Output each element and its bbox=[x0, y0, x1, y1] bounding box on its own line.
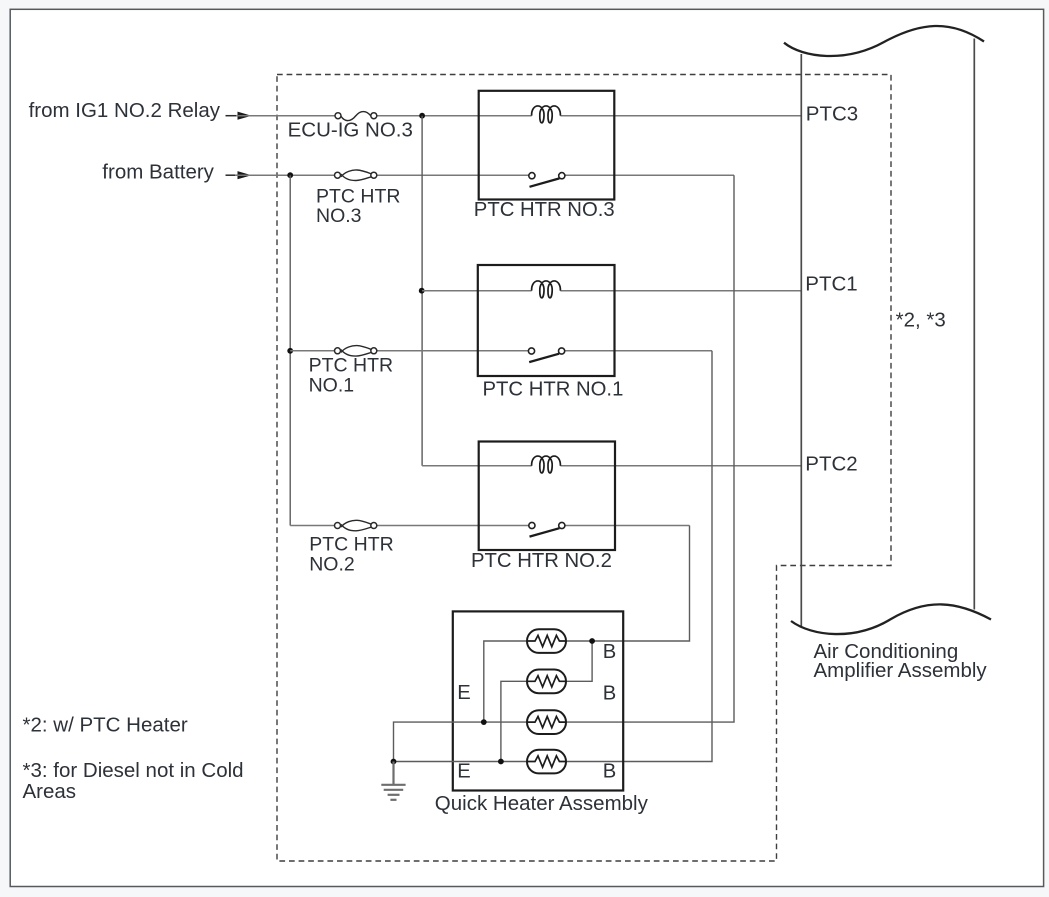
fuse PTC HTR NO.3 bbox=[335, 170, 377, 181]
relay coil U3 bbox=[532, 456, 561, 473]
wire heater4 E row bbox=[394, 761, 528, 763]
wire heater1 left branch bbox=[484, 641, 527, 722]
junction dot heater1 B node bbox=[589, 638, 595, 644]
wire PTC2 row bbox=[422, 465, 801, 467]
svg-text:NO.3: NO.3 bbox=[316, 205, 362, 227]
svg-text:Amplifier Assembly: Amplifier Assembly bbox=[814, 659, 988, 682]
svg-text:PTC1: PTC1 bbox=[805, 272, 857, 295]
ground symbol bbox=[381, 785, 405, 800]
svg-text:Areas: Areas bbox=[23, 780, 77, 803]
wire relay3 switch to heater1 B bbox=[566, 526, 690, 642]
fuse PTC HTR NO.2 bbox=[335, 520, 377, 531]
junction dot heater2/heater4 E node bbox=[498, 759, 504, 765]
svg-text:*2: w/ PTC Heater: *2: w/ PTC Heater bbox=[23, 713, 188, 736]
junction dot fuse branch relay 2 bbox=[287, 348, 293, 354]
heater element R4 bbox=[527, 750, 566, 774]
amplifier bottom wave bbox=[791, 604, 991, 634]
wire heater2 right branch bbox=[566, 641, 592, 681]
wire vertical battery branch bbox=[289, 175, 291, 525]
relay box U2 PTC HTR NO.1 bbox=[478, 265, 615, 376]
svg-text:*3: for Diesel not in Cold: *3: for Diesel not in Cold bbox=[23, 759, 244, 782]
relay switch U1 bbox=[529, 173, 565, 187]
svg-text:E: E bbox=[457, 761, 470, 783]
relay coil U1 bbox=[532, 106, 561, 123]
junction dot ground node bbox=[391, 759, 397, 765]
wire heater3 E row bbox=[394, 722, 528, 761]
fuse ECU-IG NO.3 bbox=[335, 112, 377, 121]
wire fuse NO.1 row bbox=[290, 350, 712, 352]
svg-text:ECU-IG NO.3: ECU-IG NO.3 bbox=[288, 119, 413, 142]
svg-text:B: B bbox=[603, 683, 616, 705]
heater element R3 bbox=[527, 710, 566, 734]
svg-text:PTC2: PTC2 bbox=[805, 452, 857, 475]
wire vertical IG1 branch to coils bbox=[421, 116, 423, 466]
wire Battery feed bbox=[235, 174, 734, 176]
wire PTC1 row bbox=[422, 290, 801, 292]
svg-text:NO.1: NO.1 bbox=[309, 375, 355, 397]
junction dot heater1/heater3 E node bbox=[481, 719, 487, 725]
svg-text:E: E bbox=[457, 682, 470, 704]
svg-text:NO.2: NO.2 bbox=[309, 554, 355, 576]
relay switch U3 bbox=[529, 522, 565, 536]
svg-text:PTC HTR: PTC HTR bbox=[309, 533, 394, 555]
heater element R1 bbox=[527, 629, 566, 653]
svg-text:Quick Heater Assembly: Quick Heater Assembly bbox=[435, 792, 649, 815]
amplifier connector right line bbox=[973, 39, 975, 610]
svg-text:PTC3: PTC3 bbox=[806, 103, 858, 126]
dashed boundary box bbox=[277, 75, 891, 862]
svg-text:PTC HTR: PTC HTR bbox=[309, 354, 394, 376]
arrow into Battery wire bbox=[226, 171, 252, 179]
relay box U1 PTC HTR NO.3 bbox=[479, 91, 615, 200]
fuse PTC HTR NO.1 bbox=[335, 346, 377, 357]
ground stub bbox=[392, 762, 394, 785]
arrow into IG1 wire bbox=[226, 112, 252, 120]
svg-text:PTC HTR NO.2: PTC HTR NO.2 bbox=[471, 550, 612, 572]
svg-text:B: B bbox=[603, 641, 616, 663]
heater element R2 bbox=[527, 670, 566, 694]
svg-text:*2, *3: *2, *3 bbox=[896, 308, 946, 331]
wire fuse NO.2 row bbox=[290, 525, 689, 527]
wire relay1 switch to heater3 B bbox=[566, 175, 734, 722]
wire relay2 switch to heater4 B bbox=[566, 351, 712, 762]
wire IG1 relay to PTC3 pin bbox=[236, 115, 801, 117]
svg-text:PTC HTR NO.3: PTC HTR NO.3 bbox=[474, 199, 615, 221]
relay box U3 PTC HTR NO.2 bbox=[479, 442, 615, 551]
svg-text:from IG1 NO.2 Relay: from IG1 NO.2 Relay bbox=[29, 99, 221, 122]
quick heater assembly box bbox=[453, 611, 623, 790]
svg-text:from Battery: from Battery bbox=[102, 160, 214, 183]
relay switch U2 bbox=[528, 348, 564, 362]
amplifier top wave bbox=[784, 26, 984, 56]
amplifier connector left line bbox=[800, 54, 802, 628]
junction dot node IG1/coil branch bbox=[419, 113, 425, 119]
junction dot node battery branch bbox=[287, 172, 293, 178]
relay coil U2 bbox=[532, 281, 561, 298]
svg-text:B: B bbox=[603, 761, 616, 783]
wire heater2 left branch bbox=[501, 681, 527, 761]
svg-text:PTC HTR NO.1: PTC HTR NO.1 bbox=[483, 378, 624, 400]
junction dot coil branch relay 2 bbox=[419, 288, 425, 294]
